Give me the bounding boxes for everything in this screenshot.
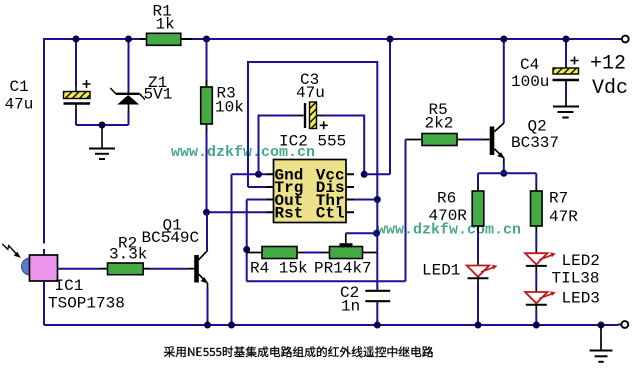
wire left 5V rail down to IC1 (43, 38, 45, 255)
wire Thr down to wiper node (376, 200, 378, 234)
IR receiver IC1 TSOP1738 (2, 244, 57, 281)
terminal +12V top right (618, 38, 622, 40)
svg-text:10k: 10k (215, 99, 244, 117)
node Rst junction (203, 209, 210, 216)
wire Trg loop over top to Thr (248, 62, 377, 200)
svg-text:BC549C: BC549C (142, 229, 200, 247)
IC U1 IC2 555 body (274, 160, 347, 223)
svg-text:IC2 555: IC2 555 (279, 133, 346, 151)
wire Thr pin link (354, 199, 377, 201)
svg-text:Rst: Rst (275, 205, 304, 223)
svg-text:LED2: LED2 (562, 252, 600, 270)
node top rail junction C1 (73, 36, 80, 43)
node top rail junction Z1 (125, 36, 132, 43)
node 555 Gnd pin junction (255, 171, 262, 178)
wire Out bottom loop to R5 (247, 140, 406, 282)
ground GND3 bottom right (590, 325, 613, 362)
svg-text:Ctl: Ctl (316, 205, 345, 223)
wire Vcc to top rail (364, 39, 390, 174)
LED LED2 (525, 248, 556, 271)
svg-text:C1: C1 (10, 78, 29, 96)
wire wiper to Thr node (346, 232, 377, 234)
svg-text:R7: R7 (549, 190, 568, 208)
wire C3 right to Vcc node (323, 116, 365, 175)
wire R5 to Q2 base (464, 139, 484, 141)
node bottom rail LED1 (475, 322, 482, 329)
transistor Q1 BC549C (189, 250, 209, 288)
wire C1/Z1 bottom to ground node (76, 110, 129, 125)
node bottom rail C2 (374, 322, 381, 329)
wire IC1 out to R2 to Q1 base (58, 268, 189, 270)
wire Q2 collector to rail (503, 39, 505, 123)
wire LED3 to rail (535, 310, 537, 325)
resistor R1 (140, 33, 192, 45)
svg-text:Vdc: Vdc (592, 77, 628, 100)
LED LED1 (467, 260, 498, 284)
svg-text:470R: 470R (429, 207, 468, 225)
svg-text:1k: 1k (156, 16, 175, 34)
node top rail Vcc drop (387, 36, 394, 43)
wire top +12V rail (44, 38, 618, 40)
node 555 Vcc junction (361, 171, 368, 178)
zener Z1 5V1 (110, 88, 145, 112)
node bottom rail LED3 (533, 322, 540, 329)
svg-text:C4: C4 (520, 56, 539, 74)
wire Q1 emitter to bottom rail (207, 289, 209, 326)
svg-text:LED3: LED3 (562, 290, 600, 308)
node R4 left junction (243, 246, 250, 253)
wire C3 left riser from Gnd node (259, 116, 298, 175)
svg-text:Q2: Q2 (528, 118, 547, 136)
ground GND2 under C4 (553, 107, 579, 118)
wire Rst to R3/Q1 node (207, 211, 267, 213)
terminal 0V bottom right (618, 324, 622, 326)
pin stubs 555 right (346, 174, 354, 212)
svg-text:PR14k7: PR14k7 (314, 260, 372, 278)
capacitor C2 (365, 233, 390, 325)
ground GND1 (89, 125, 115, 159)
node wiper junction (373, 230, 380, 237)
svg-text:47u: 47u (296, 84, 325, 102)
wire Out pin down left side (247, 200, 267, 282)
wire 555 Gnd pin to down-rail (232, 174, 267, 325)
svg-text:47R: 47R (549, 208, 578, 226)
svg-text:1n: 1n (341, 298, 360, 316)
svg-text:BC337: BC337 (511, 134, 559, 152)
svg-text:IC1: IC1 (55, 277, 84, 295)
node Thr junction (374, 196, 381, 203)
capacitor C3 (297, 102, 328, 129)
svg-text:5V1: 5V1 (144, 86, 173, 104)
wire Q2 emitter down (503, 163, 505, 174)
svg-text:47u: 47u (5, 96, 34, 114)
wire LED2 to LED3 (535, 271, 537, 287)
capacitor C4 (553, 39, 580, 107)
node bottom rail 555 gnd (228, 322, 235, 329)
svg-text:TIL38: TIL38 (552, 270, 600, 288)
svg-text:100u: 100u (511, 73, 549, 91)
LED LED3 (525, 287, 556, 310)
wire IC1 bottom to ground rail (43, 281, 45, 325)
wire LED1 to rail (477, 284, 479, 325)
transistor Q2 BC337 (483, 123, 505, 163)
node top rail Q2 collector (500, 36, 507, 43)
svg-text:2k2: 2k2 (425, 115, 454, 133)
node 5V ground junction (99, 122, 106, 129)
svg-text:R4 15k: R4 15k (250, 260, 308, 278)
resistor R5 (406, 134, 464, 146)
caption chinese title (164, 346, 433, 357)
node R1-R3 junction (203, 36, 210, 43)
resistor R2 (101, 263, 151, 275)
resistor R4 (247, 247, 304, 259)
pin stubs 555 left (267, 174, 274, 212)
wire emitter row to R6 R7 (478, 172, 536, 174)
wire Z1 top (128, 39, 130, 93)
resistor R6 (472, 173, 484, 260)
resistor R3 (201, 39, 213, 212)
node bottom rail ground stem (598, 322, 605, 329)
wire Q1 collector riser (206, 212, 208, 250)
preset PR1 4k7 (323, 233, 378, 258)
wire C1 top (75, 39, 77, 85)
resistor R7 (531, 173, 543, 248)
svg-text:+12: +12 (590, 53, 626, 76)
wire bottom ground rail (44, 324, 618, 326)
wire R4 to PR1 (304, 252, 323, 254)
svg-text:LED1: LED1 (422, 262, 460, 280)
capacitor C1 (64, 80, 91, 111)
svg-text:R6: R6 (437, 190, 456, 208)
node Q2 emitter junction (500, 170, 507, 177)
svg-text:TSOP1738: TSOP1738 (48, 295, 125, 313)
svg-text:3.3k: 3.3k (109, 246, 147, 264)
node top rail C4 (563, 36, 570, 43)
node bottom rail Q1 emitter (204, 322, 211, 329)
